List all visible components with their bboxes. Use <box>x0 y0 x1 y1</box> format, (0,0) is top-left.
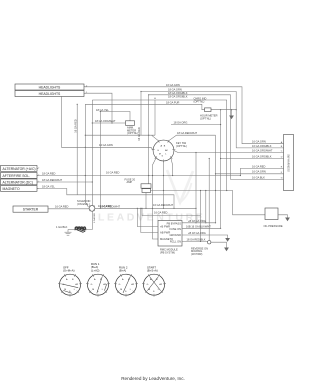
watermark leaf logo <box>167 170 193 203</box>
switch terminals <box>152 140 176 162</box>
afterfire solenoid box <box>1 173 38 179</box>
svg-text:18 GA GRN: 18 GA GRN <box>168 88 182 92</box>
svg-text:18 GA YEL: 18 GA YEL <box>96 108 109 112</box>
junction (220.6,228.3) <box>220 228 221 229</box>
svg-text:16 GA RED/WHT: 16 GA RED/WHT <box>153 203 173 207</box>
junction (200.5,190.5) <box>200 190 201 191</box>
headlight box 2 <box>15 91 84 97</box>
right connector box <box>284 135 294 191</box>
svg-text:16 GA RED: 16 GA RED <box>154 210 168 214</box>
junction (163.5,175.5) <box>163 175 164 176</box>
svg-text:(ON ENG.): (ON ENG.) <box>77 202 90 206</box>
junction (92.3,182) <box>92 181 93 182</box>
svg-text:1 GA BLK: 1 GA BLK <box>56 225 68 229</box>
junction (226.7,190.5) <box>226 190 227 191</box>
wire starter 16 GA RED <box>48 208 89 210</box>
left vertical bundle <box>76 104 78 195</box>
RMC wire PB BYPASS <box>182 222 216 224</box>
junction (152.5,175.5) <box>152 175 153 176</box>
svg-text:ALTERNATOR (+A/C): ALTERNATOR (+A/C) <box>3 167 36 171</box>
junction (220.6,109.7) <box>220 109 221 110</box>
junction (172.6,175.5) <box>172 175 173 176</box>
wire 18 GA YEL <box>100 112 130 123</box>
svg-text:16B 16 GA BLK/WHT: 16B 16 GA BLK/WHT <box>186 224 211 228</box>
junction (77.2,104.3) <box>77 104 78 105</box>
vertical feed x200.5 <box>200 191 202 242</box>
alternator box (+A/C) <box>1 166 38 172</box>
charge indicator lamp box <box>205 108 212 112</box>
svg-text:G: G <box>157 150 159 152</box>
svg-text:(OPT'NL): (OPT'NL) <box>127 131 138 135</box>
wire 14 GA GRN to key switch G <box>62 97 154 151</box>
wire bus 18 GA ORG/BLK to connector pin G <box>149 95 284 180</box>
junction (142,208.3) <box>141 208 142 209</box>
fuse box 1 <box>141 184 151 188</box>
box pin stubs <box>37 87 86 209</box>
ammeter box <box>126 121 135 126</box>
alternator box (DC) <box>1 179 38 185</box>
magneto box <box>1 186 38 192</box>
RMC module box <box>158 221 182 247</box>
wire 16 GA RED branch <box>142 208 201 215</box>
svg-text:14 GA GRN: 14 GA GRN <box>99 143 113 147</box>
junction (200.5,241.4) <box>200 241 201 242</box>
wire connector pin D <box>221 158 284 160</box>
RMC left feed +B <box>137 208 158 226</box>
svg-text:HEADLIGHTS: HEADLIGHTS <box>39 92 61 96</box>
svg-text:16 GA RED: 16 GA RED <box>55 205 69 209</box>
wire battery to solenoid <box>86 211 93 229</box>
junction (85.3,135.2) <box>85 135 86 136</box>
svg-text:18 GA ORG: 18 GA ORG <box>174 120 188 124</box>
svg-text:+B 18 GA ORG: +B 18 GA ORG <box>188 231 206 235</box>
wire switch A2 to connector pin C <box>174 151 284 153</box>
junction (231.5,109.7) <box>231 109 232 110</box>
svg-text:G: G <box>147 284 149 286</box>
junction (205.8,222.8) <box>205 222 206 223</box>
fuse box 2 <box>142 189 151 193</box>
svg-text:ALTERNATOR (DC): ALTERNATOR (DC) <box>3 180 33 184</box>
svg-text:SW HARNESS: SW HARNESS <box>287 154 291 172</box>
junction (152.5,208.3) <box>152 208 153 209</box>
junction (141,91.5) <box>140 91 141 92</box>
ignition key switch circle <box>153 140 174 161</box>
svg-text:(B+A): (B+A) <box>119 269 126 273</box>
svg-text:(OPT'NL): (OPT'NL) <box>176 144 187 148</box>
svg-text:STARTER: STARTER <box>23 208 39 212</box>
svg-text:16 GA RED: 16 GA RED <box>137 127 141 141</box>
svg-text:(G+M+A): (G+M+A) <box>63 269 75 273</box>
vertical feed x141 <box>140 92 142 136</box>
svg-text:RCLL ON: RCLL ON <box>170 239 181 243</box>
wire magneto 18 GA YEL <box>37 189 174 209</box>
svg-text:16 GA RED: 16 GA RED <box>106 171 120 175</box>
vertical feed x209.2 to bullet <box>208 159 210 241</box>
svg-text:16 GA ORG/BLK: 16 GA ORG/BLK <box>252 144 272 148</box>
junction (146,208.3) <box>145 208 146 209</box>
svg-text:16 GA GRN: 16 GA GRN <box>166 83 180 87</box>
svg-text:FUSE ON: FUSE ON <box>169 227 181 231</box>
RMC left feed AB <box>141 208 158 232</box>
junction (163.5,190.5) <box>163 190 164 191</box>
junction (112,123) <box>111 122 112 123</box>
svg-text:16 GA RED: 16 GA RED <box>98 204 112 208</box>
vertical feed x205.8 <box>205 191 207 223</box>
svg-text:G: G <box>281 178 283 180</box>
svg-text:18 GA ORG/BLK: 18 GA ORG/BLK <box>168 94 188 98</box>
svg-text:18 GA RED/WHT: 18 GA RED/WHT <box>42 178 62 182</box>
junction (196,152.5) <box>195 152 196 153</box>
wire 18 GA ORG <box>171 124 221 126</box>
wire HL2 drop <box>85 93 112 123</box>
junction (215.5,190.5) <box>215 190 216 191</box>
junction (100.3,111.5) <box>100 111 101 112</box>
svg-text:GROUND: GROUND <box>169 233 181 237</box>
svg-text:18 GA PUR: 18 GA PUR <box>166 100 180 104</box>
wire 18 GA ORG/WHT to ammeter <box>92 122 125 124</box>
svg-text:MAGNETO: MAGNETO <box>3 187 20 191</box>
junction (236.2,109.7) <box>236 109 237 110</box>
wire charge indicator 18 GA PUR <box>85 104 204 109</box>
wire +B 16 GA RED/WHT solenoid to RMC <box>95 208 196 223</box>
svg-text:16 GA RED: 16 GA RED <box>73 119 77 133</box>
svg-text:18 GA RED: 18 GA RED <box>42 171 56 175</box>
svg-text:(PB SYSTM): (PB SYSTM) <box>160 250 175 254</box>
svg-text:G: G <box>119 284 121 286</box>
svg-text:16 GA ORG/BLK: 16 GA ORG/BLK <box>252 154 272 158</box>
wire HL1 to connector pin A <box>85 87 284 144</box>
wire fuse output down <box>145 193 147 209</box>
vertical feed x155 <box>154 100 156 135</box>
starter solenoid <box>89 205 95 211</box>
svg-text:18 GA YEL: 18 GA YEL <box>42 184 55 188</box>
svg-text:(OPT'NL): (OPT'NL) <box>194 99 205 103</box>
junction (163.5,208.3) <box>163 208 164 209</box>
ground arrow charge circuit <box>229 116 234 120</box>
RMC wire GROUND to chassis <box>182 235 228 238</box>
svg-text:(18 PWR): (18 PWR) <box>191 252 203 256</box>
wire fuse line to oil pressure switch <box>151 191 266 215</box>
RMC wire FUSE ON <box>182 227 221 229</box>
svg-text:1 GA RED: 1 GA RED <box>93 213 96 224</box>
RMC wire RCLL with bullet connector <box>182 240 208 242</box>
svg-text:HEADLIGHTS: HEADLIGHTS <box>39 85 61 89</box>
junction (215.5,222.8) <box>215 222 216 223</box>
oil pressure switch box <box>265 208 278 220</box>
switch terminal M drop to RMC magneto pin <box>153 158 159 239</box>
svg-text:18 GA ORG/WHT: 18 GA ORG/WHT <box>95 119 116 123</box>
wire key switch B to connector pin F <box>168 135 216 141</box>
svg-text:16 GA GRN: 16 GA GRN <box>252 140 266 144</box>
wire key switch A feed <box>85 134 155 136</box>
junction (215.5,173.8) <box>215 173 216 174</box>
junction (220.6,124.5) <box>220 124 221 125</box>
junction (209.2,158.5) <box>209 158 210 159</box>
vertical feed x148.7 to fuse <box>148 95 150 184</box>
svg-text:(OPT'NL): (OPT'NL) <box>200 116 211 120</box>
wire bus 18 GA ORG/BLK 2 to fuse line <box>92 100 226 191</box>
svg-text:16 GA BLK: 16 GA BLK <box>252 175 265 179</box>
svg-text:M: M <box>120 289 122 291</box>
junction (92.3,123) <box>92 122 93 123</box>
wire alternator DC 18 GA RED/WHT <box>37 181 92 183</box>
svg-text:18 GA RED/WHT: 18 GA RED/WHT <box>177 131 197 135</box>
junction (220.6,158.5) <box>220 158 221 159</box>
junction (85.3,147.3) <box>85 147 86 148</box>
switch terminal L drop <box>171 158 173 176</box>
junction (174,208.3) <box>173 208 174 209</box>
junction (148.7,175.5) <box>148 175 149 176</box>
junction (148.7,94.8) <box>148 94 149 95</box>
svg-text:Rendered by LeadVenture, Inc.: Rendered by LeadVenture, Inc. <box>121 376 185 381</box>
svg-text:+B 18 GA ORG: +B 18 GA ORG <box>188 219 206 223</box>
junction (196,222.8) <box>195 222 196 223</box>
battery coil symbol <box>68 229 75 231</box>
svg-text:16 GA ORG/WHT: 16 GA ORG/WHT <box>252 148 273 152</box>
svg-text:18 GA ORG/BLK: 18 GA ORG/BLK <box>168 91 188 95</box>
junction (196,208.3) <box>195 208 196 209</box>
starter box <box>13 206 48 212</box>
junction (140.8,208.3) <box>140 208 141 209</box>
wire bus 18 GA GRN to connector pin B <box>141 92 284 148</box>
vertical feed x196 from connector pin C row <box>195 153 197 209</box>
svg-text:G: G <box>91 284 93 286</box>
junction (85.3,175.5) <box>85 175 86 176</box>
svg-text:(L+A2): (L+A2) <box>91 268 100 272</box>
svg-text:AMP: AMP <box>127 180 133 184</box>
junction (100.3,208.3) <box>100 208 101 209</box>
junction (148.7,135.2) <box>148 135 149 136</box>
svg-text:16 GA GRN: 16 GA GRN <box>252 170 266 174</box>
svg-text:M: M <box>92 289 94 291</box>
svg-text:OIL PRESSURE: OIL PRESSURE <box>264 224 283 228</box>
svg-text:PB BYPASS: PB BYPASS <box>167 221 182 225</box>
battery ground <box>67 230 69 233</box>
headlight box 1 <box>15 84 84 90</box>
junction (205.8,190.5) <box>205 190 206 191</box>
switch terminal S drop to fuse <box>163 161 165 208</box>
svg-text:18 GA RED/BLK: 18 GA RED/BLK <box>187 238 206 242</box>
junction (137.3,208.3) <box>137 208 138 209</box>
svg-text:AFTERFIRE SOL.: AFTERFIRE SOL. <box>3 174 31 178</box>
junction (240.4,175.5) <box>240 175 241 176</box>
svg-text:16 GA RED: 16 GA RED <box>252 164 266 168</box>
junction (155,98.2) <box>154 98 155 99</box>
svg-text:(B+S+A): (B+S+A) <box>147 269 158 273</box>
wire afterfire 18 GA RED long run to connector pin E <box>37 168 284 175</box>
